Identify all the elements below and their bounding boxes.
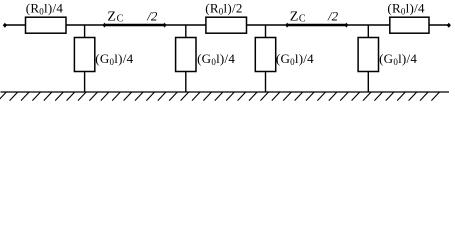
svg-text:(G0l)/4: (G0l)/4 — [197, 51, 235, 67]
resistor R series 1 — [26, 17, 67, 33]
resistor G shunt 1 — [74, 38, 94, 72]
resistor R series 2 — [206, 17, 247, 33]
resistor R series 3 — [390, 17, 429, 33]
ground hatching — [0, 92, 439, 101]
wire — [247, 24, 288, 26]
node tap 1 — [84, 25, 86, 38]
wire — [429, 24, 449, 26]
wire — [5, 24, 26, 26]
terminal left — [3, 23, 7, 28]
svg-text:(G0l)/4: (G0l)/4 — [95, 51, 133, 67]
wire — [265, 72, 267, 93]
resistor G shunt 2 — [176, 38, 196, 72]
wire — [84, 72, 86, 93]
svg-text:(R0l)/4: (R0l)/4 — [387, 0, 425, 16]
wire — [66, 24, 104, 26]
wire — [346, 24, 389, 26]
svg-text:(R0l)/2: (R0l)/2 — [205, 0, 242, 16]
terminal right — [447, 23, 451, 28]
node tap 4 — [367, 25, 369, 38]
wire — [185, 72, 187, 93]
node tap 2 — [185, 25, 187, 38]
wire — [367, 72, 369, 93]
svg-text:(G0l)/4: (G0l)/4 — [276, 51, 314, 67]
svg-text:(R0l)/4: (R0l)/4 — [26, 0, 64, 16]
ground plane line — [1, 91, 450, 93]
wire — [165, 24, 206, 26]
svg-text:/2: /2 — [327, 8, 339, 23]
svg-text:(G0l)/4: (G0l)/4 — [379, 51, 417, 67]
resistor G shunt 3 — [255, 38, 275, 72]
svg-text:/2: /2 — [146, 8, 158, 23]
node tap 3 — [265, 25, 267, 38]
transmission line section 2 — [287, 24, 346, 26]
transmission line section 1 — [104, 24, 164, 26]
resistor G shunt 4 — [358, 38, 378, 72]
